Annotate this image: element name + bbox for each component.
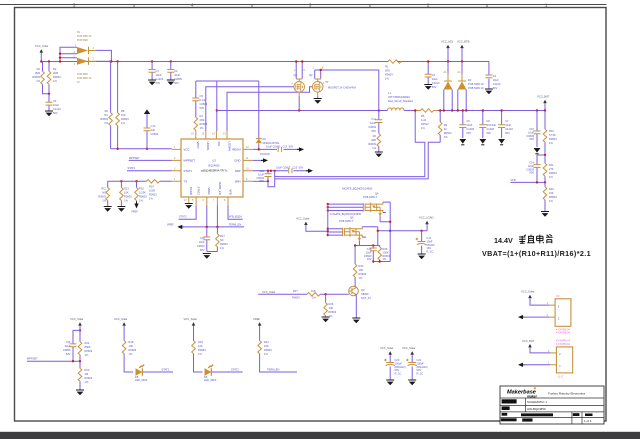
svg-text:VREF: VREF [207, 187, 211, 195]
svg-text:R15: R15 [139, 187, 144, 191]
svg-text:10uF: 10uF [427, 239, 433, 243]
svg-text:50V: 50V [53, 111, 58, 115]
snubber resistor [377, 134, 381, 147]
resistor R17 [216, 227, 218, 252]
svg-text:VCC_LOAD: VCC_LOAD [419, 216, 434, 220]
svg-text:C5: C5 [466, 119, 470, 123]
capacitor C17 polarized [421, 231, 423, 254]
svg-text:R12: R12 [101, 187, 106, 191]
capacitor C22 across SRP/SRN [267, 171, 269, 182]
svg-text:VCC_BTB: VCC_BTB [457, 40, 470, 44]
svg-text:VCC_Solar: VCC_Solar [184, 317, 198, 321]
wire gate pulldown column [355, 241, 380, 264]
node REGN arrow [297, 147, 304, 151]
svg-text:R8: R8 [121, 109, 125, 113]
svg-text:50V: 50V [174, 81, 179, 85]
SECTION: half-bridge and top right [192, 40, 545, 158]
svg-text:VBAT=(1+(R10+R11)/R16)*2.1: VBAT=(1+(R10+R11)/R16)*2.1 [482, 249, 591, 258]
svg-text:LED_0603: LED_0603 [135, 378, 148, 382]
capacitor C3 [427, 62, 429, 85]
svg-text:Q5: Q5 [350, 216, 354, 220]
svg-text:VFB: VFB [228, 189, 232, 195]
svg-text:100K: 100K [383, 250, 389, 254]
resistor R18 [122, 341, 126, 354]
wire [40, 53, 42, 62]
svg-text:C12: C12 [151, 124, 156, 128]
svg-text:57.6K: 57.6K [549, 133, 556, 137]
svg-text:50V: 50V [505, 131, 510, 135]
svg-text:R0603: R0603 [124, 195, 132, 199]
resistor R30 [353, 264, 357, 277]
capacitor C12 with inverted ground [146, 114, 148, 149]
svg-text:C0603: C0603 [368, 125, 376, 129]
svg-text:HW-BQ24650: HW-BQ24650 [527, 407, 546, 411]
row2 [502, 399, 517, 403]
svg-text:VFB: VFB [511, 178, 516, 182]
svg-text:C1210: C1210 [156, 77, 164, 81]
svg-text:C0603: C0603 [526, 134, 534, 138]
ground C4 [485, 89, 493, 94]
svg-text:R0603: R0603 [198, 348, 206, 352]
wire GND pin11 [253, 159, 263, 161]
row5 [501, 418, 517, 421]
svg-text:C0603: C0603 [151, 132, 159, 136]
wire BST node [196, 80, 259, 82]
svg-text:R0603: R0603 [368, 142, 376, 146]
svg-text:R16: R16 [549, 187, 554, 191]
svg-text:STAT2: STAT2 [231, 367, 239, 371]
svg-text:16V: 16V [427, 246, 432, 250]
svg-text:STAT1: STAT1 [128, 166, 136, 170]
grid ticks [134, 5, 487, 8]
svg-text:MPPSET: MPPSET [184, 159, 196, 163]
wire STAT1 net [143, 371, 173, 373]
svg-text:PCB SMD-T: PCB SMD-T [363, 195, 378, 199]
svg-text:Fuzhou Rokoloy Electronics: Fuzhou Rokoloy Electronics [548, 392, 586, 396]
svg-text:50V: 50V [259, 179, 264, 183]
wire left bus [327, 204, 329, 235]
resistor R8 [117, 62, 119, 149]
svg-text:R0603: R0603 [383, 254, 391, 258]
svg-text:D4: D4 [263, 137, 267, 141]
svg-text:MOSFET_N-CH30V40A: MOSFET_N-CH30V40A [328, 86, 356, 90]
resistor R26 [325, 294, 327, 317]
svg-text:Q1: Q1 [294, 73, 298, 77]
svg-text:NC: NC [220, 238, 224, 242]
svg-text:R14: R14 [149, 185, 154, 189]
node VREF arrow left [177, 225, 184, 229]
svg-text:R0603: R0603 [329, 310, 337, 314]
ground [45, 111, 53, 116]
svg-text:10K: 10K [198, 344, 203, 348]
resistor R16 [544, 182, 546, 211]
svg-text:R0603: R0603 [139, 195, 147, 199]
resistor R2 [43, 62, 50, 94]
svg-text:C1210: C1210 [432, 81, 440, 85]
svg-text:10uF: 10uF [156, 73, 162, 77]
wire STAT2 [179, 206, 197, 220]
wire P1 pin3 upper out [96, 50, 111, 61]
svg-text:Q2: Q2 [309, 73, 313, 77]
row3 [502, 406, 510, 410]
svg-text:R_1C: R_1C [395, 372, 402, 376]
resistor R15 [136, 181, 138, 203]
svg-text:R4: R4 [200, 114, 204, 118]
svg-text:R0603: R0603 [264, 348, 272, 352]
svg-text:C0805: C0805 [174, 77, 182, 81]
svg-text:50V: 50V [395, 368, 400, 372]
svg-text:C3: C3 [432, 73, 436, 77]
svg-text:R22: R22 [85, 341, 90, 345]
svg-text:10uF: 10uF [466, 123, 472, 127]
capacitor C4 [488, 62, 490, 90]
svg-text:PGND: PGND [189, 187, 193, 195]
node VREF down arrow [134, 202, 138, 209]
wire REGN pin12 [253, 148, 299, 150]
resistor R28 [373, 246, 390, 262]
svg-text:1 of 1: 1 of 1 [584, 419, 592, 423]
svg-text:C1210: C1210 [53, 107, 61, 111]
svg-text:50V: 50V [156, 81, 161, 85]
svg-text:VCC_Solar: VCC_Solar [521, 290, 535, 294]
svg-text:50V: 50V [529, 171, 534, 175]
svg-text:50V: 50V [200, 248, 205, 252]
svg-text:10uF: 10uF [528, 130, 534, 134]
svg-text:SRP: SRP [235, 169, 241, 173]
resistor R10 [537, 111, 545, 156]
ground Q3 emitter [352, 318, 360, 323]
capacitor C15 series [289, 168, 292, 173]
svg-text:R0603: R0603 [85, 349, 93, 353]
resistor R12 [107, 181, 109, 206]
svg-text:R11: R11 [549, 163, 554, 167]
svg-text:R5: R5 [421, 114, 425, 118]
capacitor C13 series [278, 147, 281, 152]
svg-text:PCB SMD 10: PCB SMD 10 [468, 82, 484, 86]
svg-text:SW: SW [217, 142, 221, 147]
transistor Q1 [296, 62, 302, 111]
svg-text:TERM_EN: TERM_EN [229, 222, 242, 226]
wire VFB net [228, 206, 243, 220]
svg-text:R0603: R0603 [549, 195, 557, 199]
wire main input rail [41, 61, 489, 63]
bottom dark bar [0, 432, 640, 439]
svg-text:R28: R28 [383, 247, 388, 251]
svg-text:R18: R18 [129, 340, 134, 344]
svg-text:NC: NC [102, 191, 106, 195]
pin stubs top [196, 131, 227, 139]
svg-text:R13: R13 [124, 187, 129, 191]
wire SRP pin10 [253, 170, 308, 172]
svg-text:50V: 50V [200, 106, 205, 110]
ground C1 [148, 80, 156, 85]
ground Q2 source [314, 99, 322, 104]
svg-text:R26: R26 [329, 302, 334, 306]
pin stubs left [172, 149, 182, 181]
svg-text:SRN: SRN [235, 180, 241, 184]
resistor R14 horizontal [147, 180, 160, 184]
capacitor C16 [73, 330, 80, 361]
svg-text:PCB SMD: PCB SMD [77, 39, 88, 42]
capacitor C9 [195, 81, 197, 117]
svg-text:D5xH5: D5xH5 [427, 243, 435, 247]
ground C10 [534, 148, 541, 154]
svg-text:C14: C14 [529, 161, 534, 165]
svg-text:R0603: R0603 [98, 195, 106, 199]
ground R16 [541, 212, 549, 217]
svg-text:10uF: 10uF [366, 250, 372, 254]
svg-text:50V: 50V [493, 86, 498, 90]
capacitor C2 [170, 62, 172, 81]
svg-text:10uF: 10uF [505, 123, 511, 127]
svg-text:D6: D6 [204, 375, 208, 379]
svg-text:LODRV: LODRV [227, 142, 231, 152]
svg-text:27K: 27K [549, 167, 554, 171]
wire VCC feed to pin1 [111, 148, 172, 150]
svg-text:10K: 10K [264, 344, 269, 348]
svg-text:14.4V: 14.4V [494, 236, 513, 245]
svg-text:R0603: R0603 [149, 193, 157, 197]
svg-text:C2: C2 [174, 69, 178, 73]
svg-text:VCC_Solar: VCC_Solar [70, 317, 84, 321]
ground C2 [167, 80, 175, 85]
wire Q4 gate/source bundle [328, 204, 363, 210]
resistor R5 sense [421, 109, 434, 113]
svg-text:22uF: 22uF [65, 344, 71, 348]
svg-text:1M: 1M [85, 372, 89, 376]
outer top border line [0, 4, 607, 6]
ground P2 pin2 [518, 315, 525, 319]
svg-text:2K: 2K [444, 127, 447, 131]
svg-text:33TY0565/13R0k0: 33TY0565/13R0k0 [388, 95, 410, 99]
SECTION: connectors [518, 290, 573, 379]
svg-text:3M3: 3M3 [53, 71, 59, 75]
node GND arrow [261, 158, 268, 162]
svg-text:10K: 10K [329, 306, 334, 310]
wire Q5 bundle [328, 229, 343, 235]
svg-text:50V: 50V [66, 352, 71, 356]
svg-text:R10: R10 [549, 129, 554, 133]
svg-text:4.XXXPW.04: 4.XXXPW.04 [556, 332, 570, 335]
pin stubs right [243, 149, 253, 181]
svg-text:R9: R9 [444, 123, 448, 127]
svg-text:R0603: R0603 [359, 272, 367, 276]
wire SRN pin9 [253, 180, 268, 182]
svg-text:10K: 10K [311, 289, 316, 293]
row4 [502, 413, 508, 416]
svg-text:1uF: 1uF [151, 128, 156, 132]
svg-text:REGN: REGN [232, 148, 240, 152]
svg-text:R_1C: R_1C [417, 372, 424, 376]
wire Q5 out [362, 227, 390, 246]
svg-text:R0603: R0603 [385, 73, 393, 77]
svg-text:JL.27: JL.27 [558, 376, 565, 379]
svg-text:C7: C7 [505, 119, 509, 123]
svg-text:10K: 10K [121, 113, 126, 117]
svg-text:R19: R19 [198, 340, 203, 344]
svg-text:Q4: Q4 [375, 191, 379, 195]
svg-text:HIDRV: HIDRV [206, 142, 210, 151]
svg-text:VCC_ADJ: VCC_ADJ [441, 40, 454, 44]
svg-text:C10: C10 [529, 127, 534, 131]
node SRP arrow [306, 169, 313, 173]
resistor R27 [307, 293, 320, 297]
SECTION: input top-left [32, 31, 489, 150]
capacitor C6 [48, 94, 50, 111]
svg-text:C0603: C0603 [256, 176, 264, 180]
svg-text:10uF: 10uF [370, 121, 376, 125]
svg-text:R0603: R0603 [549, 171, 557, 175]
svg-text:TERM_EN: TERM_EN [267, 367, 280, 371]
svg-text:LED_0603: LED_0603 [204, 378, 217, 382]
svg-text:VREF: VREF [131, 210, 138, 214]
svg-text:3M3: 3M3 [35, 71, 41, 75]
svg-text:D2: D2 [468, 78, 472, 82]
svg-text:NC: NC [104, 113, 108, 117]
svg-text:NC10uF: NC10uF [486, 123, 496, 127]
svg-text:R0603: R0603 [100, 117, 108, 121]
svg-text:R2512: R2512 [421, 122, 429, 126]
svg-text:VCC_Solar: VCC_Solar [262, 290, 276, 294]
svg-text:VCC_BAT: VCC_BAT [537, 95, 550, 99]
svg-text:STAT2: STAT2 [197, 187, 201, 196]
svg-text:R30: R30 [359, 264, 364, 268]
svg-text:SOT_23: SOT_23 [361, 296, 371, 300]
svg-text:C6: C6 [53, 99, 57, 103]
svg-text:10uF: 10uF [53, 103, 59, 107]
svg-text:VREF: VREF [167, 223, 174, 227]
svg-text:100uF: 100uF [395, 361, 403, 365]
op-amp U3 body [181, 139, 243, 197]
wire sense pair to R5 kelvin taps [275, 111, 441, 179]
svg-text:D5: D5 [135, 375, 139, 379]
svg-text:VCC_Solar: VCC_Solar [35, 44, 49, 48]
SECTION: sense/fet block [258, 187, 435, 324]
svg-text:5.23K: 5.23K [139, 191, 146, 195]
diode D2 dual [447, 62, 449, 74]
svg-text:R0603: R0603 [292, 296, 300, 300]
svg-text:C1210: C1210 [505, 127, 513, 131]
transistor Q3 [349, 286, 359, 296]
svg-text:C21: C21 [417, 358, 422, 362]
capacitor C18 [372, 246, 374, 262]
wire SW rail [217, 110, 545, 112]
resistor R20 [79, 361, 81, 390]
resistor R1 [388, 60, 401, 64]
LED D5 [136, 365, 145, 376]
svg-text:Q3: Q3 [361, 288, 365, 292]
svg-text:PCB SMD 10: PCB SMD 10 [77, 77, 92, 80]
svg-text:C0603: C0603 [197, 244, 205, 248]
ground C3 [424, 85, 432, 90]
svg-text:C17: C17 [427, 236, 432, 240]
svg-text:(D8xH12): (D8xH12) [395, 365, 406, 369]
svg-text:2R0: 2R0 [385, 69, 390, 73]
svg-text:10K: 10K [359, 268, 364, 272]
svg-text:10K: 10K [549, 191, 554, 195]
wire LODRV to Q2 gate [227, 87, 313, 131]
svg-text:R21: R21 [264, 340, 269, 344]
resistor R11 [544, 155, 546, 182]
SECTION: feedback right [482, 95, 591, 258]
resistor R21 [258, 341, 262, 354]
svg-text:MPPSET: MPPSET [129, 156, 140, 160]
wire P1 pin3 lower out [96, 60, 111, 62]
svg-text:xxBQ24650RVA-TR-7x: xxBQ24650RVA-TR-7x [201, 169, 228, 173]
svg-text:R3: R3 [53, 67, 57, 71]
svg-text:866K: 866K [85, 345, 91, 349]
svg-text:R0603: R0603 [220, 242, 228, 246]
svg-text:R6: R6 [105, 109, 109, 113]
svg-text:VCC_Solar: VCC_Solar [114, 317, 128, 321]
wire TS [108, 180, 172, 182]
wire P1 left bracket [60, 47, 77, 61]
connector P1 lower element [77, 58, 88, 65]
ground snubber [375, 152, 383, 157]
svg-text:C1206: C1206 [486, 127, 494, 131]
svg-text:maker: maker [527, 395, 538, 399]
svg-text:R2: R2 [37, 67, 41, 71]
svg-text:PCB SMD: PCB SMD [77, 73, 88, 76]
svg-text:100uF: 100uF [417, 361, 425, 365]
SECTION: IC U3 [98, 109, 440, 258]
svg-text:C0805: C0805 [63, 348, 71, 352]
svg-text:VBST: VBST [196, 142, 200, 150]
resistor R9 in sense tap [439, 111, 441, 143]
svg-text:2R0: 2R0 [200, 118, 205, 122]
ground PGND pad [185, 204, 193, 209]
pin stubs bottom [189, 197, 228, 206]
svg-text:10uF C0603 C13 50V: 10uF C0603 C13 50V [266, 144, 294, 148]
svg-text:10pF: 10pF [528, 164, 534, 168]
svg-text:VCC_Solar: VCC_Solar [296, 216, 310, 220]
svg-text:R0603: R0603 [549, 137, 557, 141]
svg-text:2R0: 2R0 [371, 138, 376, 142]
capacitor C1 [151, 62, 153, 81]
svg-text:10uF: 10uF [258, 172, 264, 176]
svg-text:R0603: R0603 [121, 117, 129, 121]
svg-text:10K: 10K [129, 344, 134, 348]
svg-text:VREF: VREF [253, 317, 261, 321]
capacitor C10 [536, 111, 538, 148]
svg-text:TERM_EN: TERM_EN [218, 181, 222, 194]
svg-text:C4: C4 [493, 74, 497, 78]
svg-text:U3: U3 [212, 159, 216, 163]
svg-text:C0603: C0603 [200, 102, 208, 106]
svg-text:R0603: R0603 [32, 75, 40, 79]
svg-text:10uF: 10uF [493, 78, 499, 82]
svg-text:VFB_BQ24: VFB_BQ24 [229, 215, 243, 219]
svg-text:R_1C: R_1C [427, 250, 434, 254]
svg-text:R2: R2 [373, 134, 377, 138]
svg-text:1m0: 1m0 [421, 118, 427, 122]
resistor R3 [48, 62, 50, 94]
svg-text:SCHEMATIC 1: SCHEMATIC 1 [527, 400, 547, 404]
wire SW pin riser [216, 81, 218, 131]
svg-text:C0603: C0603 [364, 254, 372, 258]
svg-text:100K: 100K [149, 189, 155, 193]
wire HIDRV to Q1 gate [206, 87, 294, 131]
svg-text:C19: C19 [200, 236, 205, 240]
SECTION: title block [500, 386, 604, 424]
svg-text:R0603: R0603 [53, 75, 61, 79]
svg-text:STAT1: STAT1 [184, 169, 193, 173]
svg-text:50V: 50V [371, 129, 376, 133]
svg-text:BQ24650: BQ24650 [209, 164, 221, 168]
svg-text:MPPSET: MPPSET [27, 357, 38, 361]
wire Q4 drain out [380, 202, 390, 261]
resistor R19 [192, 341, 196, 354]
